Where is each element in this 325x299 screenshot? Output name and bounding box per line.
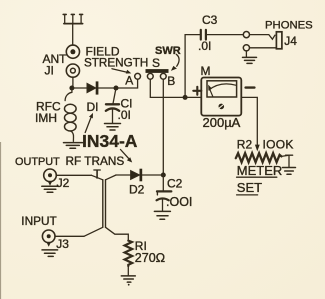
svg-text:R2: R2 — [237, 138, 253, 152]
svg-text:200µA: 200µA — [203, 115, 241, 130]
transformer T — [84, 175, 128, 241]
wire D2 to node — [142, 174, 163, 176]
wire tip spring to plug — [250, 35, 275, 40]
speck below R1 ground — [128, 284, 130, 286]
switch contact left — [147, 73, 153, 79]
svg-text:INPUT: INPUT — [21, 214, 56, 228]
jack J2 — [44, 169, 57, 186]
node meter junction — [183, 95, 188, 100]
jack J4 sleeve contact — [243, 45, 249, 51]
arrow 1N34-A to D1 — [85, 113, 93, 133]
ground (R2) — [283, 168, 296, 175]
svg-text:.0I: .0I — [198, 39, 211, 53]
wire J1 to node — [72, 77, 74, 88]
svg-text:JI: JI — [45, 64, 54, 78]
svg-text:IN34-A: IN34-A — [82, 131, 138, 151]
meter M — [201, 78, 241, 116]
ground (R1) — [121, 276, 135, 282]
wire meter - to R2 wiper — [241, 97, 257, 144]
svg-text:METER: METER — [237, 163, 282, 178]
svg-text:STRENGTH: STRENGTH — [84, 57, 148, 70]
node junction J1 — [69, 86, 74, 91]
arrow STRENGTH to A — [112, 69, 131, 74]
wire left contact to meter node — [150, 79, 185, 97]
wire riser C3 — [185, 35, 200, 98]
jack J1 — [66, 45, 79, 77]
svg-text:M: M — [201, 64, 211, 78]
potentiometer R2 — [236, 153, 282, 162]
ground (J2) — [42, 186, 58, 192]
wire node to D1 — [72, 87, 87, 89]
capacitor C1 — [106, 88, 119, 123]
svg-text:OUTPUT: OUTPUT — [15, 156, 60, 168]
ground (J4) — [243, 57, 257, 63]
svg-text:J3: J3 — [56, 237, 69, 251]
ground (C2) — [154, 211, 170, 219]
diode D1 — [87, 81, 98, 94]
svg-text:D2: D2 — [129, 183, 145, 197]
svg-text:.OOI: .OOI — [166, 195, 192, 209]
wire B contact down to D2 node — [162, 79, 164, 175]
svg-text:DI: DI — [87, 100, 99, 114]
wire C3 to J4 — [207, 34, 243, 36]
antenna — [63, 14, 82, 23]
ground (J3) — [42, 250, 58, 257]
inductor RFC 1MH — [65, 88, 77, 141]
wire D2 lead — [116, 174, 131, 176]
svg-text:S: S — [152, 56, 160, 70]
jack J4 tip contact — [243, 31, 249, 37]
switch slider bar — [146, 69, 169, 73]
wire D1 to C1 node — [98, 87, 116, 89]
resistor R1 — [125, 241, 133, 266]
svg-text:PHONES: PHONES — [265, 19, 313, 31]
diode D2 — [131, 169, 143, 182]
label + — [193, 87, 201, 95]
phone plug J4 — [276, 32, 282, 49]
svg-text:IMH: IMH — [35, 111, 57, 125]
svg-text:A: A — [125, 74, 133, 88]
capacitor C2 — [157, 175, 172, 211]
wire R2 to ground — [281, 155, 292, 167]
arrow RF TRANS to D2 — [121, 150, 133, 163]
wire J2 to transformer — [56, 174, 91, 176]
wire sleeve to plug — [250, 47, 277, 49]
wire node to meter + — [185, 96, 201, 98]
node A contact — [135, 73, 141, 79]
svg-text:C3: C3 — [202, 13, 218, 27]
svg-text:RF TRANS: RF TRANS — [66, 154, 125, 168]
wire antenna to J1 — [72, 24, 74, 45]
wire sleeve to ground — [245, 51, 247, 57]
wire R1 to ground — [127, 266, 129, 276]
switch contact B — [160, 73, 166, 79]
R2 wiper arrow — [255, 145, 260, 152]
wire C1 node to A riser — [116, 79, 138, 88]
page edge artifact — [0, 142, 1, 299]
svg-text:J2: J2 — [57, 176, 70, 190]
node C1 junction — [114, 86, 119, 91]
label - — [246, 86, 255, 88]
ground (coil) — [64, 143, 83, 149]
svg-text:.0I: .0I — [118, 108, 131, 122]
jack J3 — [42, 230, 55, 247]
arrow SWR to B — [171, 54, 179, 71]
svg-text:C2: C2 — [167, 177, 183, 191]
svg-text:J4: J4 — [284, 34, 297, 48]
ground (C1) — [105, 124, 121, 131]
svg-text:B: B — [167, 74, 175, 88]
svg-text:T: T — [93, 168, 101, 182]
wire J3 to transformer — [55, 235, 84, 237]
svg-text:270Ω: 270Ω — [135, 251, 165, 265]
svg-text:IOOK: IOOK — [263, 138, 294, 152]
node D2/C2 junction — [161, 173, 166, 178]
capacitor C3 — [201, 30, 206, 40]
svg-text:SET: SET — [237, 180, 262, 195]
